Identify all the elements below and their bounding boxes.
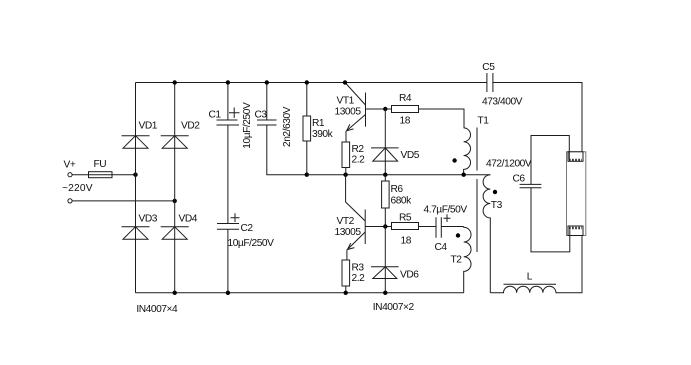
- diode VD5: [371, 109, 420, 175]
- node VT1 base junction: [383, 107, 387, 111]
- node VD4 bottom junction: [173, 291, 177, 295]
- svg-text:C5: C5: [482, 62, 495, 73]
- wire VD1/VD3 column: [135, 83, 137, 293]
- wire VT1 base: [366, 108, 392, 110]
- svg-text:R3: R3: [352, 263, 365, 274]
- svg-text:T1: T1: [478, 116, 490, 127]
- wire C1 to C2: [227, 125, 229, 224]
- capacitor C1: [209, 83, 253, 149]
- node R2 bottom junction: [343, 173, 347, 177]
- wire top rail left: [136, 82, 487, 84]
- svg-text:IN4007×2: IN4007×2: [373, 302, 415, 313]
- inductor L: [490, 230, 582, 293]
- svg-text:2n2/630V: 2n2/630V: [282, 106, 293, 147]
- node C2 bottom junction: [226, 291, 230, 295]
- svg-text:4.7µF/50V: 4.7µF/50V: [424, 205, 468, 216]
- wire lamp top-left pin to C6 branch: [531, 136, 569, 185]
- svg-text:VT1: VT1: [337, 96, 355, 107]
- node V+ terminal: [64, 160, 76, 177]
- capacitor C4: [424, 205, 468, 254]
- svg-text:18: 18: [400, 116, 411, 127]
- svg-text:C6: C6: [513, 174, 526, 185]
- fuse FU: [89, 159, 113, 178]
- wire ~220V to VD2/VD4 column: [72, 200, 175, 202]
- lamp tube: [567, 152, 586, 236]
- transformer core: [476, 128, 478, 253]
- diode VD2: [161, 121, 201, 149]
- svg-text:VD3: VD3: [139, 214, 158, 225]
- diode VD4: [161, 214, 198, 240]
- node C3 top junction: [265, 80, 269, 84]
- svg-text:VD4: VD4: [179, 214, 198, 225]
- svg-text:18: 18: [401, 236, 412, 247]
- resistor R3: [342, 260, 365, 293]
- svg-text:R1: R1: [312, 118, 325, 129]
- wire R5 to C4: [419, 226, 437, 228]
- resistor R4: [392, 93, 419, 127]
- svg-text:13005: 13005: [335, 227, 362, 238]
- diode VD1: [122, 121, 158, 149]
- capacitor C3: [255, 83, 293, 148]
- transformer T2 winding: [451, 227, 472, 293]
- wire bottom rail: [136, 292, 464, 294]
- svg-text:R5: R5: [399, 212, 412, 223]
- svg-text:V+: V+: [64, 160, 76, 171]
- capacitor C6: [513, 174, 542, 188]
- wire C2 to bottom rail: [227, 229, 229, 292]
- svg-text:472/1200V: 472/1200V: [486, 159, 532, 170]
- svg-text:2.2: 2.2: [352, 155, 366, 166]
- wire fuse to bridge node: [112, 174, 136, 176]
- svg-text:FU: FU: [94, 159, 107, 170]
- lamp bottom filament: [568, 226, 583, 236]
- resistor R1: [303, 83, 334, 175]
- svg-text:T3: T3: [491, 200, 503, 211]
- node VD5 bottom junction: [383, 173, 387, 177]
- transformer T3 winding: [483, 175, 502, 293]
- node R3 bottom junction: [344, 291, 348, 295]
- node VD6 bottom junction: [383, 291, 387, 295]
- svg-text:VT2: VT2: [337, 216, 355, 227]
- svg-text:10µF/250V: 10µF/250V: [228, 238, 275, 249]
- svg-text:10µF/250V: 10µF/250V: [242, 102, 253, 149]
- node VD2 top junction: [173, 80, 177, 84]
- node R1 bottom junction: [305, 173, 309, 177]
- svg-text:C4: C4: [435, 242, 448, 253]
- transistor VT2: [335, 175, 366, 260]
- svg-text:13005: 13005: [335, 107, 362, 118]
- svg-text:C2: C2: [241, 223, 254, 234]
- T1 phase dot: [452, 158, 456, 162]
- transistor VT1: [335, 83, 366, 143]
- wire C3 bottom to mid rail: [267, 125, 307, 175]
- lamp top filament: [568, 152, 583, 162]
- capacitor C5: [482, 62, 523, 108]
- svg-text:R6: R6: [391, 184, 404, 195]
- T3 phase dot: [493, 190, 497, 194]
- node R1 top junction: [305, 80, 309, 84]
- svg-text:C3: C3: [255, 110, 268, 121]
- svg-text:VD5: VD5: [401, 150, 420, 161]
- wire mid rail: [307, 174, 491, 176]
- resistor R5: [392, 212, 419, 246]
- node VT1 collector junction: [343, 80, 347, 84]
- svg-text:2.2: 2.2: [352, 273, 366, 284]
- svg-text:473/400V: 473/400V: [482, 97, 523, 108]
- resistor R2: [342, 142, 365, 175]
- svg-text:C1: C1: [209, 110, 222, 121]
- wire top rail right: [493, 83, 582, 160]
- svg-text:VD2: VD2: [181, 121, 200, 132]
- capacitor C2: [217, 213, 274, 249]
- svg-text:R2: R2: [352, 144, 365, 155]
- node ~220V terminal: [62, 183, 93, 203]
- resistor R6: [382, 175, 413, 227]
- svg-text:VD1: VD1: [139, 121, 158, 132]
- node VT2 base junction: [383, 224, 387, 228]
- transformer T1 winding: [464, 116, 490, 175]
- wire C4 to T2 top: [441, 226, 463, 228]
- svg-text:L: L: [527, 272, 533, 283]
- node AC2 junction: [173, 199, 177, 203]
- node AC1 junction: [133, 173, 137, 177]
- svg-text:T2: T2: [451, 255, 463, 266]
- svg-text:680k: 680k: [391, 196, 413, 207]
- svg-text:IN4007×4: IN4007×4: [136, 304, 178, 315]
- node C1 top junction: [226, 80, 230, 84]
- wire VT2 base: [365, 226, 391, 228]
- svg-text:390k: 390k: [312, 129, 334, 140]
- wire R4 to T1 top: [419, 109, 465, 128]
- node T1 bottom junction: [462, 173, 466, 177]
- diode VD3: [122, 214, 158, 240]
- wire C6 bottom to lamp bottom-left pin: [531, 188, 570, 252]
- svg-text:R4: R4: [399, 93, 412, 104]
- svg-text:VD6: VD6: [400, 270, 419, 281]
- svg-text:~220V: ~220V: [62, 183, 93, 194]
- diode VD6: [371, 227, 419, 293]
- wire V+ to fuse: [72, 174, 88, 176]
- T2 phase dot: [456, 233, 460, 237]
- wire VD2/VD4 column: [174, 83, 176, 293]
